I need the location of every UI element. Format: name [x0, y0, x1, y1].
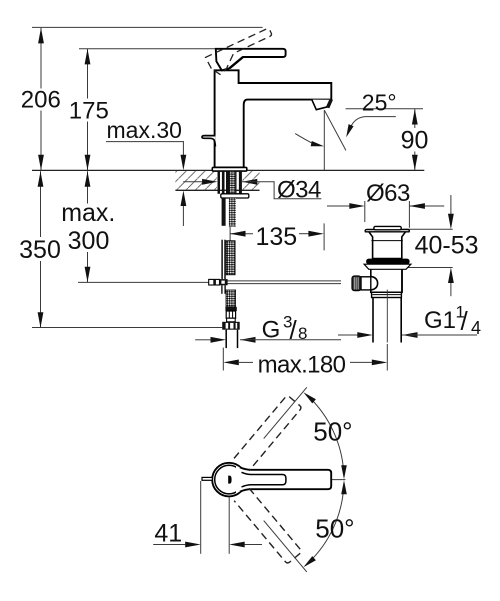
drain side connector	[361, 277, 371, 290]
svg-text:300: 300	[68, 227, 110, 255]
supply pipe wall left	[225, 330, 227, 348]
raised handle (dashed)	[206, 28, 278, 77]
dim 41 line left	[153, 544, 185, 546]
pull rod linkage rod bottom	[209, 283, 341, 285]
linkage block	[220, 279, 228, 285]
mounting nut	[221, 194, 249, 198]
svg-text:50°: 50°	[315, 514, 354, 544]
dim max180 arrows	[223, 360, 239, 366]
dim max30 arrow up	[181, 191, 187, 207]
dim max30 line upper	[182, 142, 184, 156]
dim G38 arrows	[211, 337, 227, 343]
dim 4053 line bottom	[450, 283, 452, 296]
dim 41 ext right	[228, 498, 230, 554]
dim 175 line	[87, 49, 89, 99]
svg-text:25°: 25°	[362, 90, 397, 116]
shank wall right	[239, 171, 242, 194]
svg-text:4: 4	[471, 318, 481, 338]
faucet aerator outline	[312, 100, 331, 110]
hose neck	[227, 318, 236, 322]
dim G38 line left	[195, 339, 211, 341]
top view body circle inner	[215, 465, 244, 494]
svg-text:40-53: 40-53	[415, 231, 479, 259]
counter hatch left	[175, 171, 217, 190]
drain body right wall	[401, 267, 403, 293]
dim 206 arrows	[38, 28, 44, 44]
dim 206 line	[40, 28, 42, 89]
svg-text:Ø34: Ø34	[277, 177, 321, 204]
shank rod edge left	[226, 171, 230, 194]
dim dia63 ext right	[408, 201, 410, 228]
dim max180 ext right	[386, 344, 388, 371]
svg-text:41: 41	[154, 519, 182, 547]
supply hose upper	[226, 241, 235, 275]
svg-text:350: 350	[19, 236, 61, 264]
dim dia63 line left	[327, 205, 351, 207]
svg-text:8: 8	[298, 324, 307, 343]
ext line top of handle	[79, 48, 216, 50]
top view body circle outer	[212, 463, 246, 497]
svg-text:max.180: max.180	[258, 352, 346, 379]
ext line top of raised handle	[32, 26, 263, 28]
shank tube below nut	[222, 198, 226, 226]
G38 nut facet A	[226, 323, 229, 329]
drain flange	[365, 230, 409, 232]
svg-text:135: 135	[255, 223, 297, 251]
hose ribbed section	[226, 311, 235, 318]
dim dia34 right leader	[242, 182, 322, 199]
shank rod edge right	[235, 171, 236, 194]
shank thread	[230, 171, 236, 194]
svg-text:G1: G1	[424, 307, 456, 334]
arc upper 50	[309, 397, 344, 472]
spout stream 25deg line	[324, 110, 346, 150]
dim 135 line	[230, 233, 253, 235]
dim max30 underline	[106, 141, 184, 143]
dim dia63 line right	[409, 205, 444, 207]
threaded rod below nut	[229, 198, 236, 227]
dim 175 arrows	[85, 49, 91, 65]
linkage block hole	[221, 281, 224, 284]
drain neck	[369, 232, 406, 259]
dim 4053 ext bottom	[403, 267, 453, 269]
dim 25deg arc arrow	[311, 141, 324, 146]
svg-text:Ø63: Ø63	[366, 180, 410, 207]
G38 nut facet B	[230, 323, 233, 329]
drain gasket lip	[364, 264, 411, 269]
dim max180 line	[239, 361, 253, 363]
handle pivot shadow	[221, 67, 231, 70]
rod stub wall B	[224, 285, 226, 294]
dim dia63 arrows	[349, 203, 365, 209]
dim dia34 arrows	[202, 179, 218, 185]
dim G114 line left	[338, 334, 358, 336]
supply hose lower	[226, 290, 236, 307]
top view lever inner line	[242, 472, 286, 487]
dim 135 arrows	[230, 231, 246, 237]
aerator level reference line	[346, 108, 423, 110]
hose rib line B	[232, 311, 234, 318]
ray +50	[264, 387, 307, 438]
arc lower 50	[309, 488, 344, 563]
top view lever outline	[240, 467, 331, 492]
dim 4053 arrows	[448, 214, 454, 230]
drain collar	[372, 292, 402, 297]
counter top line	[32, 169, 424, 171]
pull rod wall A	[221, 240, 223, 279]
svg-text:90: 90	[401, 126, 429, 154]
rod stub wall A	[221, 285, 223, 294]
G38 nut facet C	[236, 323, 238, 329]
hose rib line A	[228, 311, 230, 318]
dim 25deg leader arrow	[346, 124, 353, 137]
svg-text:/: /	[461, 306, 469, 336]
spout stream vertical ref	[323, 110, 325, 170]
drain tailpipe	[373, 298, 401, 343]
dim G38 line right	[240, 339, 341, 341]
dim max300 line	[87, 171, 89, 203]
drain gasket	[366, 259, 410, 265]
pull rod wall B	[224, 240, 226, 279]
dim 350 line	[40, 171, 42, 237]
shank wall left outer	[218, 171, 221, 194]
dim 4053 ext top	[403, 228, 453, 230]
dim 25deg arc	[295, 134, 313, 144]
counter hatch right	[243, 171, 260, 190]
svg-text:50°: 50°	[313, 416, 352, 446]
top view lever silhouette	[236, 466, 331, 493]
svg-text:max.: max.	[61, 199, 115, 227]
drain plug cap	[374, 226, 401, 229]
dim max180 ext left	[222, 348, 224, 371]
G38 nut	[222, 322, 240, 330]
drain knob knurl	[354, 277, 358, 289]
dim dia34 left leader	[183, 181, 209, 183]
top view left tab	[202, 477, 212, 480]
ext line hose end	[32, 327, 222, 329]
rod break centerline	[229, 226, 231, 241]
drain collar line	[372, 294, 400, 296]
top view center mark	[228, 476, 231, 484]
deck plate	[212, 167, 247, 171]
dim max30 line lower	[182, 206, 184, 226]
ghost lever +50 (dashed)	[234, 395, 302, 471]
counter bottom line	[175, 189, 259, 191]
linkage clamp tick	[213, 279, 216, 285]
svg-text:max.30: max.30	[107, 117, 182, 143]
arc upper arrows	[303, 392, 316, 403]
faucet aerator face	[326, 100, 333, 108]
shank wall left inner	[222, 171, 225, 194]
dim 350 arrows	[38, 171, 44, 187]
dim 90 line	[414, 109, 416, 128]
dim 4053 line top	[450, 195, 452, 214]
drain centerline	[386, 290, 388, 343]
svg-text:175: 175	[69, 97, 109, 124]
dim max300 arrows	[85, 171, 91, 187]
dim 25deg leader	[350, 117, 396, 130]
supply pipe wall right	[237, 330, 239, 348]
svg-text:/: /	[290, 315, 298, 345]
arc lower arrows	[341, 480, 347, 494]
dim 41 ext left	[200, 481, 202, 554]
dim 90 arrows	[412, 109, 418, 125]
svg-text:G: G	[262, 317, 281, 344]
max300 extension line	[78, 281, 209, 283]
top view centerline	[278, 479, 346, 481]
dim 41 arrows	[185, 542, 201, 548]
dim 135 ext right	[323, 223, 325, 250]
handle lever	[216, 49, 286, 71]
drain body	[371, 267, 402, 293]
pull-rod knob on body	[202, 136, 215, 147]
drain knob	[352, 276, 361, 291]
faucet body	[215, 70, 332, 167]
dim max30 arrow down	[181, 155, 187, 171]
ray -50	[264, 521, 307, 572]
pull rod linkage rod top	[209, 280, 341, 282]
dim G114 arrows	[357, 332, 373, 338]
drain neck seam	[371, 240, 402, 242]
ghost lever -50 (dashed)	[234, 488, 302, 564]
linkage clamp sleeve	[209, 279, 220, 285]
dim dia63 ext left	[364, 201, 366, 222]
hose collar	[225, 307, 236, 311]
dim G114 line right	[402, 334, 477, 336]
dim 41 line right	[245, 544, 262, 546]
svg-text:206: 206	[21, 87, 61, 114]
